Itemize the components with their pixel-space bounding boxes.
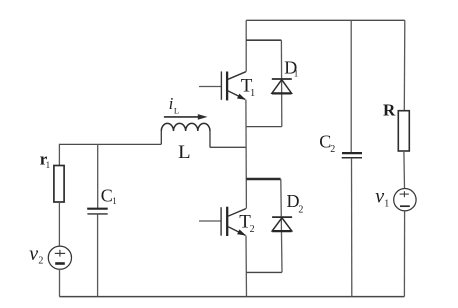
wire D1 top [246,39,281,41]
capacitor C2 [342,153,362,158]
source v2 [48,246,71,269]
diode D2 [272,217,292,231]
wire top rail [246,19,405,21]
IGBT T2 [199,207,246,236]
resistor r1 [54,166,64,203]
svg-text:2: 2 [330,144,335,155]
wire bottom rail [59,296,404,298]
current arrow iL [164,114,208,120]
svg-text:2: 2 [38,256,43,267]
inductor L [161,123,210,147]
diode D1 [272,79,292,93]
wire R to v1 [403,151,406,189]
wire main vertical top (rail to T1 collector) [245,20,247,71]
svg-text:1: 1 [294,68,299,78]
wire C2 lower [351,159,353,297]
wire D1 vertical [280,40,282,126]
svg-text:2: 2 [298,205,303,216]
wire C2 upper [350,20,352,152]
resistor R [398,111,409,151]
wire main vertical middle (T1 emitter to T2 collector) [245,100,248,209]
wire C1 branch upper [97,144,99,208]
capacitor C1 [87,209,108,214]
wire v1 to bottom rail [403,211,405,297]
wire D1 bottom [246,126,281,128]
svg-text:1: 1 [46,160,51,170]
IGBT T1 [199,71,246,100]
wire inductor to bridge midpoint [210,146,247,148]
svg-text:L: L [178,142,191,163]
svg-text:v: v [29,243,38,265]
svg-text:1: 1 [384,198,389,209]
wire v2 to bottom rail [59,269,61,296]
wire D2 bottom [247,271,282,273]
wire C1 to bottom rail [97,215,99,297]
svg-text:R: R [383,101,396,120]
wire D2 vertical [281,179,282,272]
wire R branch upper [403,20,406,110]
svg-text:1: 1 [112,196,117,206]
svg-text:2: 2 [250,224,255,235]
source v1 [394,189,416,211]
wire left top horizontal [59,143,161,145]
svg-text:L: L [174,106,179,116]
wire r1 branch upper [58,144,60,166]
wire D2 top (thick) [246,178,280,180]
svg-text:i: i [169,94,174,113]
svg-text:v: v [375,186,384,208]
svg-text:C: C [101,185,113,205]
wire r1 to v2 [58,202,60,246]
wire main vertical bottom (T2 emitter to rail) [245,236,248,297]
svg-text:1: 1 [250,88,255,99]
